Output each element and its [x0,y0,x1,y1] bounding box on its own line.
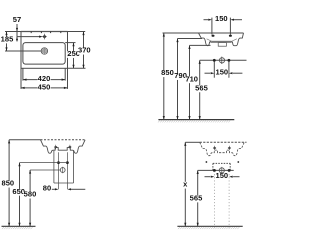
svg-text:150: 150 [215,16,228,23]
svg-text:580: 580 [24,192,37,199]
svg-text:80: 80 [43,186,52,193]
svg-text:150: 150 [216,173,229,180]
svg-text:565: 565 [195,85,208,92]
svg-text:850: 850 [161,70,174,77]
svg-text:850: 850 [2,181,15,188]
svg-text:710: 710 [185,76,198,83]
svg-text:150: 150 [216,70,229,77]
svg-text:450: 450 [38,84,51,91]
svg-text:420: 420 [38,76,51,83]
svg-text:x: x [183,182,187,189]
svg-text:565: 565 [190,196,203,203]
svg-text:185: 185 [1,37,14,44]
svg-text:57: 57 [13,17,22,24]
svg-text:370: 370 [78,48,91,55]
